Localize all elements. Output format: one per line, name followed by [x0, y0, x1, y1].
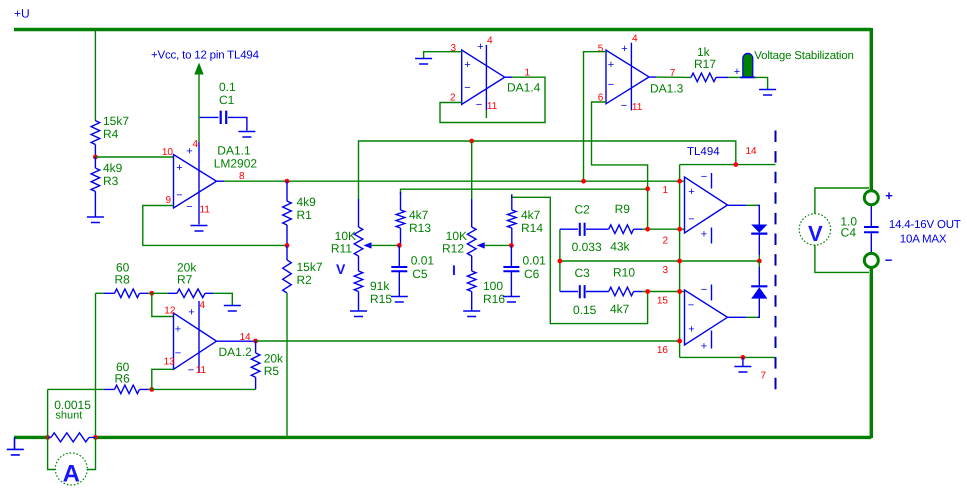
comparator 2 TL494 — [685, 290, 728, 345]
svg-text:R1: R1 — [297, 208, 313, 222]
wire R12 riser — [471, 141, 473, 199]
svg-text:10A MAX: 10A MAX — [900, 234, 947, 246]
wire DA1.3 output to R17 — [649, 76, 656, 78]
svg-text:1: 1 — [662, 185, 668, 196]
node R12 wiper / R14 / C6 junction — [509, 243, 514, 248]
resistor R8 — [96, 292, 105, 294]
node shunt left junction — [45, 435, 50, 440]
svg-text:2: 2 — [662, 236, 668, 247]
svg-text:+: + — [464, 59, 470, 71]
ground below C1 — [238, 132, 255, 138]
node rail/pin15 — [677, 289, 682, 294]
resistor R14 — [511, 195, 513, 210]
ground below R3 — [94, 191, 96, 217]
svg-text:12: 12 — [164, 306, 176, 317]
resistor R13 — [400, 192, 402, 210]
svg-text:16: 16 — [657, 345, 669, 356]
svg-text:V: V — [336, 261, 346, 277]
svg-text:C4: C4 — [841, 226, 857, 240]
svg-text:C2: C2 — [575, 203, 591, 217]
resistor R6 — [48, 388, 104, 390]
svg-text:14.4-16V OUT: 14.4-16V OUT — [889, 219, 961, 231]
svg-text:4: 4 — [487, 36, 493, 47]
svg-text:C6: C6 — [524, 267, 540, 281]
node junction R4/R3 — [93, 155, 98, 160]
wire comp2 output — [728, 316, 746, 318]
node R12 riser junction — [469, 139, 474, 144]
node shunt right junction — [93, 435, 98, 440]
svg-text:R13: R13 — [409, 221, 431, 235]
node pin3 left junction — [558, 259, 563, 264]
resistor R5 — [255, 341, 257, 353]
wire pin 9 feedback — [143, 206, 287, 246]
node pin14 riser junction — [733, 162, 738, 167]
wire ammeter loop — [48, 437, 56, 469]
svg-text:5: 5 — [598, 44, 604, 55]
svg-text:+: + — [608, 59, 614, 71]
svg-text:−: − — [176, 190, 182, 202]
wire pin 6 feedback to output node — [592, 102, 648, 229]
wire pin 16 long run — [256, 340, 680, 342]
svg-text:−: − — [186, 201, 192, 213]
svg-text:4k7: 4k7 — [610, 302, 630, 316]
wire R17 to LED — [728, 76, 743, 78]
ground below R15 — [350, 311, 367, 317]
svg-text:10: 10 — [162, 147, 174, 158]
svg-text:4k7: 4k7 — [521, 208, 541, 222]
resistor R3 — [94, 157, 96, 168]
svg-text:91k: 91k — [370, 279, 390, 293]
svg-text:−: − — [885, 253, 893, 268]
svg-text:R4: R4 — [103, 127, 119, 141]
terminal - output — [864, 253, 878, 267]
op-amp DA1.2 — [174, 313, 217, 369]
wire right bus upper — [870, 28, 873, 191]
wire V-meter top loop — [815, 188, 869, 214]
comparator 1 TL494 — [685, 177, 728, 233]
svg-text:R10: R10 — [613, 265, 635, 279]
svg-text:−: − — [688, 214, 694, 226]
svg-text:DA1.1: DA1.1 — [217, 143, 251, 157]
wire R8 left riser to bottom bus — [95, 293, 97, 437]
svg-text:DA1.4: DA1.4 — [507, 81, 541, 95]
svg-text:LM2902: LM2902 — [214, 157, 258, 171]
capacitor C2 — [560, 228, 578, 230]
wire Vref distribution (pin14 to R11/R12 tops) — [359, 141, 736, 199]
svg-text:+: + — [688, 186, 694, 198]
wire DA1.4 output feedback to pin 2 — [505, 76, 512, 78]
wire pin 7 ground row — [680, 356, 776, 358]
capacitor C1 — [200, 116, 219, 118]
wire right bus lower — [870, 267, 873, 439]
svg-text:R6: R6 — [115, 372, 131, 386]
svg-text:−: − — [175, 348, 181, 360]
svg-text:4: 4 — [632, 34, 638, 45]
capacitor C5 — [398, 245, 400, 266]
svg-text:0.01: 0.01 — [411, 254, 435, 268]
ground below C6 — [503, 297, 520, 303]
svg-text:−: − — [188, 365, 194, 377]
capacitor C3 — [560, 291, 578, 293]
svg-text:C5: C5 — [412, 267, 428, 281]
svg-text:R5: R5 — [264, 364, 280, 378]
wire comp1 output — [728, 204, 746, 206]
voltmeter V — [799, 214, 830, 245]
svg-text:+: + — [688, 324, 694, 336]
wire V-meter bottom loop — [815, 245, 869, 273]
svg-text:DA1.2: DA1.2 — [219, 345, 253, 359]
svg-text:−: − — [464, 82, 470, 94]
svg-text:−: − — [608, 79, 614, 91]
svg-text:4: 4 — [192, 139, 198, 150]
wire bottom bus — [14, 436, 871, 439]
ground right of LED — [759, 90, 776, 96]
svg-text:C3: C3 — [575, 266, 591, 280]
diode D1 — [751, 225, 767, 233]
node DA1.3 output / R13 junction — [645, 186, 650, 191]
svg-text:R2: R2 — [297, 273, 313, 287]
wire pin 14 — [680, 164, 776, 166]
svg-text:+: + — [175, 324, 181, 336]
resistor R1 — [286, 181, 288, 201]
svg-text:+Vcc, to 12 pin TL494: +Vcc, to 12 pin TL494 — [151, 50, 260, 62]
svg-text:13: 13 — [164, 357, 176, 368]
svg-text:7: 7 — [761, 371, 767, 382]
svg-text:11: 11 — [487, 101, 498, 112]
wire pin 5 down to pin8 wire — [584, 52, 607, 182]
svg-text:+: + — [188, 307, 194, 319]
ammeter A — [55, 453, 87, 485]
wire R13 top to DA1.3 output node — [401, 189, 648, 194]
svg-text:A: A — [63, 461, 80, 488]
node pin7 ground junction — [741, 355, 746, 360]
node rail/pin1 — [677, 179, 682, 184]
wire pin 3 row — [560, 260, 759, 262]
svg-text:11: 11 — [632, 102, 643, 113]
ground below C5 — [391, 297, 408, 303]
svg-text:−: − — [688, 300, 694, 312]
resistor R9 — [586, 228, 609, 230]
svg-text:4k9: 4k9 — [297, 195, 317, 209]
svg-text:DA1.3: DA1.3 — [650, 82, 684, 96]
op-amp DA1.3 — [606, 50, 649, 104]
svg-text:shunt: shunt — [55, 410, 82, 422]
node diode junction pin3 — [757, 259, 762, 264]
svg-text:43k: 43k — [610, 240, 630, 254]
svg-text:−: − — [701, 284, 707, 296]
node pin8/R1 junction — [285, 179, 290, 184]
svg-text:0.15: 0.15 — [573, 303, 597, 317]
svg-text:15: 15 — [657, 296, 669, 307]
svg-text:0.01: 0.01 — [523, 254, 547, 268]
svg-text:Voltage Stabilization: Voltage Stabilization — [754, 50, 853, 62]
resistor R15 — [354, 271, 363, 292]
svg-text:+: + — [621, 43, 627, 55]
wire pin2 row to comparator — [642, 228, 685, 230]
svg-text:11: 11 — [200, 205, 211, 216]
svg-text:+: + — [176, 162, 182, 174]
ground TL494 pin7 — [742, 357, 744, 366]
node R11 wiper / R13 / C5 junction — [397, 243, 402, 248]
svg-text:R3: R3 — [103, 174, 119, 188]
resistor shunt 0.0015 — [48, 436, 96, 438]
potentiometer R12 — [471, 199, 473, 227]
svg-text:14: 14 — [746, 146, 758, 157]
svg-text:4k9: 4k9 — [103, 161, 123, 175]
svg-text:R8: R8 — [115, 273, 131, 287]
wire pin 12 drop — [152, 293, 174, 316]
svg-text:C1: C1 — [219, 93, 235, 107]
svg-text:R12: R12 — [442, 242, 464, 256]
ground below R16 — [463, 311, 480, 317]
svg-text:R16: R16 — [483, 292, 505, 306]
node R6/R5/pin13 junction — [149, 387, 154, 392]
svg-text:+: + — [734, 66, 740, 78]
wire C2/C3 left tie — [559, 229, 561, 291]
node pin5 junction — [581, 179, 586, 184]
terminal + output — [864, 191, 878, 205]
svg-text:+: + — [701, 229, 707, 241]
ground right of R7 — [224, 306, 241, 312]
node R8/R7/pin12 junction — [149, 291, 154, 296]
wire +U top bus — [14, 28, 871, 31]
ground below DA1.1 — [191, 226, 208, 232]
node rail/pin3 — [677, 259, 682, 264]
wire pin15 row to comparator — [642, 291, 685, 293]
resistor R17 — [691, 73, 716, 82]
wire bus to R4 — [94, 30, 96, 122]
svg-text:−: − — [621, 100, 627, 112]
node R1/R2/feedback junction — [285, 243, 290, 248]
op-amp DA1.4 — [462, 50, 505, 104]
svg-text:0.033: 0.033 — [572, 240, 602, 254]
wire pin 3 to ground — [424, 52, 462, 59]
wire R5 bottom to pin13 node — [152, 388, 256, 390]
svg-text:R15: R15 — [370, 292, 392, 306]
node R10 / R14-path junction — [645, 289, 650, 294]
svg-text:15k7: 15k7 — [297, 260, 323, 274]
wire LED to ground — [755, 77, 768, 89]
svg-text:−: − — [701, 171, 707, 183]
node rail/pin16 — [677, 339, 682, 344]
diode D2 — [758, 261, 760, 267]
wire DA1.2 output — [217, 340, 256, 342]
wire TL494 left rail — [679, 165, 681, 358]
svg-text:R9: R9 — [615, 202, 631, 216]
svg-text:9: 9 — [165, 195, 171, 206]
svg-text:−: − — [476, 99, 482, 111]
svg-text:R7: R7 — [177, 273, 193, 287]
node rail/pin2 — [677, 227, 682, 232]
svg-text:TL494: TL494 — [687, 146, 720, 158]
svg-text:+: + — [885, 188, 893, 203]
ground at DA1.4 pin3 — [415, 59, 432, 65]
svg-text:+: + — [477, 41, 483, 53]
ground at bottom-left bus end — [14, 437, 16, 449]
node DA1.2 out / R5 junction — [253, 339, 258, 344]
svg-text:3: 3 — [662, 265, 668, 276]
wire pin10 DA1.1 — [95, 156, 173, 158]
svg-text:R14: R14 — [521, 221, 543, 235]
capacitor C6 — [510, 245, 512, 266]
resistor R16 — [467, 271, 476, 292]
wire +Vcc arrow to DA1.1 pin4 — [194, 63, 203, 75]
node R9 / DA1.3-out junction — [645, 227, 650, 232]
svg-text:4: 4 — [200, 300, 206, 311]
svg-text:I: I — [452, 262, 456, 278]
svg-text:8: 8 — [239, 171, 245, 182]
svg-text:R17: R17 — [694, 57, 716, 71]
resistor R7 — [152, 292, 168, 294]
svg-text:4k7: 4k7 — [409, 208, 429, 222]
capacitor C4 — [870, 203, 872, 226]
resistor R2 — [286, 245, 288, 260]
svg-text:V: V — [808, 221, 823, 246]
resistor R10 — [586, 291, 609, 293]
wire R6 riser from shunt-left — [47, 389, 49, 437]
wire R2 to bottom bus — [286, 293, 288, 437]
wire pin 13 riser — [152, 369, 174, 389]
svg-text:11: 11 — [196, 365, 207, 376]
wire pin 8 output to comparator 1 — [217, 180, 225, 182]
svg-text:0.1: 0.1 — [219, 80, 236, 94]
resistor R4 — [91, 121, 100, 145]
svg-text:+U: +U — [14, 7, 30, 21]
svg-text:100: 100 — [483, 279, 503, 293]
wire R14 top to pin15 row (around) — [512, 194, 648, 324]
svg-text:+: + — [701, 341, 707, 353]
potentiometer R11 — [358, 199, 360, 227]
IC TL494 boundary dashed — [775, 131, 777, 397]
svg-text:R11: R11 — [331, 242, 352, 256]
svg-text:15k7: 15k7 — [103, 114, 129, 128]
op-amp DA1.1 — [174, 155, 217, 209]
